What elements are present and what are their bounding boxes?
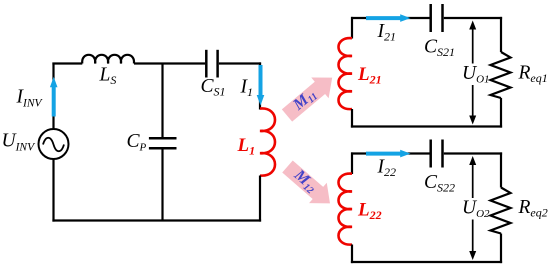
receiver1 top wire right segment — [444, 17, 502, 19]
receiver1 right wire upper — [500, 17, 502, 52]
inductor LS — [82, 55, 134, 64]
svg-text:CS1: CS1 — [201, 76, 226, 99]
transmitter right wire lower — [259, 176, 261, 222]
inductor L21 — [339, 38, 353, 109]
middle branch wire upper — [161, 64, 163, 139]
current arrow I1 — [257, 65, 265, 106]
svg-text:IINV: IINV — [16, 87, 44, 110]
transmitter right wire upper — [259, 62, 261, 109]
svg-text:UINV: UINV — [2, 131, 37, 154]
receiver1 left wire upper — [351, 17, 353, 39]
coupling arrow M12 — [279, 156, 339, 213]
receiver2 bottom wire — [351, 261, 502, 263]
receiver2 left wire lower — [351, 245, 353, 264]
receiver2 left wire upper — [351, 152, 353, 174]
svg-text:CS22: CS22 — [424, 172, 455, 195]
receiver1 right wire lower — [500, 98, 502, 128]
current arrow I_INV — [50, 77, 58, 117]
resistor Req2 — [491, 188, 511, 234]
transmitter top wire middle segment — [134, 62, 205, 64]
current arrow I21 — [366, 14, 411, 22]
receiver2 right wire upper — [500, 152, 502, 187]
capacitor CS1 — [206, 50, 217, 78]
receiver1 top wire left segment — [351, 17, 431, 19]
capacitor CS22 — [431, 140, 443, 168]
coupling arrow M11 — [278, 67, 341, 126]
svg-text:UO2: UO2 — [462, 198, 490, 221]
svg-text:CP: CP — [127, 131, 147, 154]
capacitor CS21 — [431, 4, 443, 32]
inductor L1 — [260, 108, 275, 175]
transmitter bottom wire — [52, 219, 261, 221]
receiver1 left wire lower — [351, 109, 353, 128]
transmitter left wire lower — [52, 159, 54, 222]
svg-text:L21: L21 — [357, 64, 382, 87]
middle branch wire lower — [161, 148, 163, 220]
receiver2 top wire left segment — [351, 152, 431, 154]
receiver2 right wire lower — [500, 234, 502, 264]
current arrow I22 — [366, 150, 411, 158]
svg-text:L1: L1 — [237, 135, 256, 158]
svg-text:Req2: Req2 — [518, 197, 548, 220]
transmitter top wire right segment — [219, 62, 261, 64]
transmitter top wire left segment — [52, 62, 82, 64]
svg-text:Req1: Req1 — [518, 63, 548, 86]
svg-text:UO1: UO1 — [462, 63, 490, 86]
svg-text:I22: I22 — [377, 157, 397, 180]
receiver2 top wire right segment — [444, 152, 502, 154]
ac source U_INV — [39, 129, 69, 159]
voltage arrow UO2 — [466, 156, 480, 260]
inductor L22 — [339, 174, 353, 245]
transmitter left wire upper — [52, 63, 54, 130]
svg-text:CS21: CS21 — [424, 37, 455, 60]
svg-text:I21: I21 — [377, 21, 397, 44]
voltage arrow UO1 — [466, 21, 480, 125]
resistor Req1 — [491, 52, 511, 98]
receiver1 bottom wire — [351, 125, 502, 127]
svg-text:L22: L22 — [357, 200, 382, 223]
capacitor CP — [149, 138, 177, 148]
svg-text:LS: LS — [99, 65, 117, 88]
svg-text:I1: I1 — [240, 77, 254, 100]
